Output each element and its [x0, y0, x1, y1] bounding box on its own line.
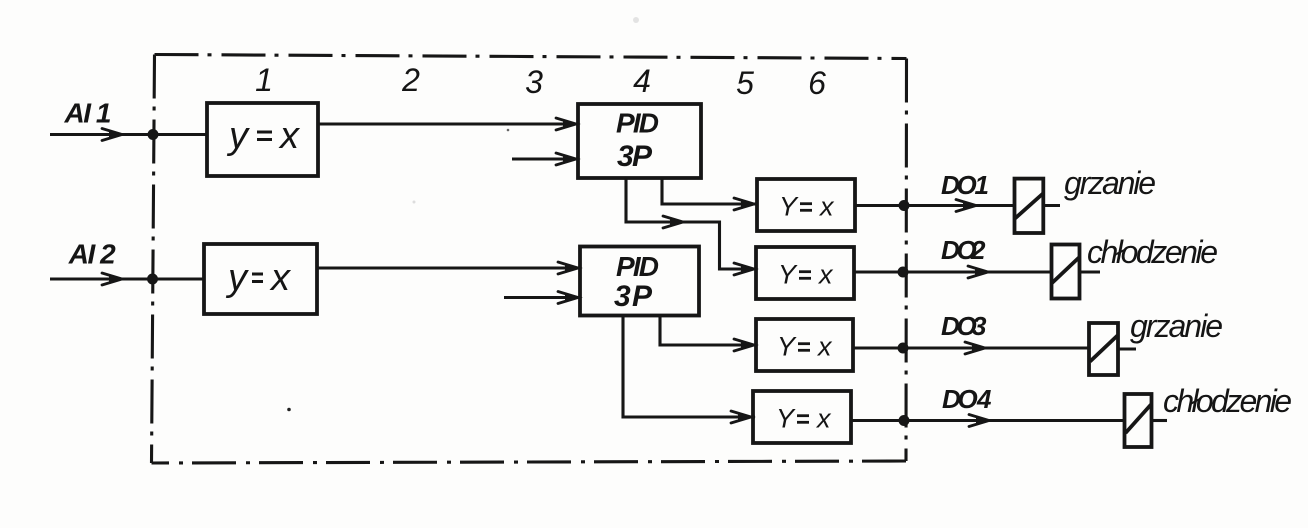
svg-text:y: y — [226, 115, 250, 157]
svg-text:4: 4 — [976, 384, 992, 414]
svg-text:PID: PID — [616, 108, 659, 139]
svg-text:AI 1: AI 1 — [64, 98, 112, 129]
svg-text:y: y — [225, 257, 249, 299]
svg-text:Y: Y — [776, 404, 796, 434]
svg-text:x: x — [278, 115, 301, 157]
svg-text:x: x — [817, 260, 834, 290]
svg-text:3P: 3P — [614, 280, 653, 313]
svg-text:Y: Y — [778, 260, 798, 290]
svg-text:grzanie: grzanie — [1130, 308, 1223, 344]
svg-text:chłodzenie: chłodzenie — [1087, 234, 1218, 270]
svg-text:2: 2 — [401, 62, 420, 98]
svg-text:3: 3 — [972, 311, 987, 341]
svg-text:O: O — [958, 384, 978, 414]
svg-text:Y: Y — [777, 332, 797, 362]
svg-text:3: 3 — [525, 64, 543, 100]
svg-text:chłodzenie: chłodzenie — [1163, 383, 1292, 419]
svg-text:x: x — [818, 192, 835, 222]
svg-text:grzanie: grzanie — [1064, 165, 1156, 201]
svg-text:2: 2 — [970, 235, 986, 265]
svg-text:6: 6 — [808, 65, 826, 101]
svg-text:1: 1 — [255, 62, 273, 98]
svg-text:PID: PID — [616, 251, 659, 282]
svg-text:4: 4 — [633, 63, 651, 99]
svg-text:AI 2: AI 2 — [68, 239, 116, 270]
svg-text:5: 5 — [736, 65, 754, 101]
svg-text:1: 1 — [975, 170, 989, 200]
svg-text:3P: 3P — [617, 140, 653, 173]
svg-text:Y: Y — [779, 192, 799, 222]
svg-text:x: x — [815, 404, 832, 434]
svg-text:x: x — [269, 257, 292, 299]
svg-text:x: x — [816, 332, 833, 362]
